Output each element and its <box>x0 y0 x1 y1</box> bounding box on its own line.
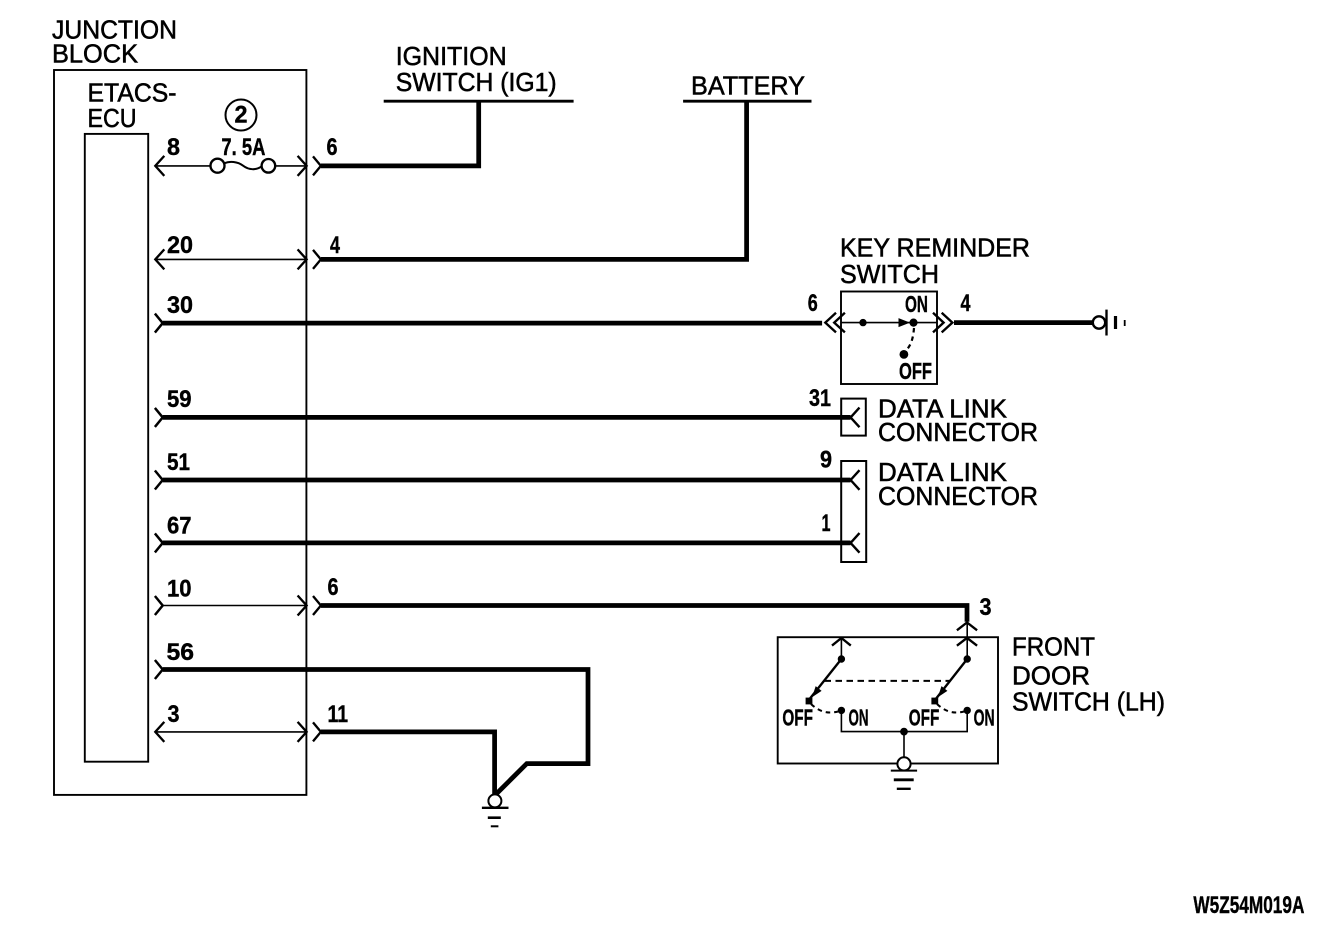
krs dashed arm to OFF <box>907 328 915 350</box>
krs OFF dot <box>900 351 908 359</box>
fds mechanical link dashed <box>825 680 950 682</box>
fds right stem <box>966 622 968 659</box>
fds right ON dot <box>964 707 970 713</box>
body ground bars <box>482 807 509 809</box>
data link connector 1 box <box>841 399 866 436</box>
fds common junction dot <box>901 728 908 735</box>
svg-text:OFF: OFF <box>909 705 940 731</box>
svg-text:3: 3 <box>980 594 992 621</box>
fds left arm <box>808 659 841 701</box>
key reminder sw terminal 6 arrows <box>825 313 845 333</box>
dlc1 terminal 31 <box>851 408 860 428</box>
svg-text:FRONT: FRONT <box>1012 632 1095 662</box>
wire pin4 to battery thick <box>321 101 747 259</box>
svg-text:4: 4 <box>330 232 340 259</box>
dlc2 terminal 1 <box>851 533 860 553</box>
wire pin51 to data link connector thick <box>163 478 851 483</box>
svg-text:SWITCH (IG1): SWITCH (IG1) <box>396 67 557 97</box>
pin 10 arrow <box>155 596 163 615</box>
svg-text:1: 1 <box>822 510 831 537</box>
fds left dashed arc <box>811 704 838 713</box>
pin 56 arrow <box>155 660 163 679</box>
wire pin3 thin <box>155 731 306 733</box>
svg-text:ECU: ECU <box>88 103 137 133</box>
wire pin20 thin <box>155 258 306 260</box>
pin 67 arrow <box>155 533 163 552</box>
ignition switch symbol underline <box>384 100 574 103</box>
junction border arrow pin6b <box>298 596 321 616</box>
wire pin30 to key reminder switch thick <box>163 321 822 326</box>
svg-text:30: 30 <box>167 292 193 319</box>
svg-text:6: 6 <box>808 290 818 317</box>
wire pin10 thin <box>163 605 307 607</box>
fds right pivot dot <box>964 656 970 662</box>
key reminder switch internal wire <box>841 322 937 324</box>
svg-text:CONNECTOR: CONNECTOR <box>878 417 1038 447</box>
pin 59 arrow <box>155 408 163 427</box>
svg-text:10: 10 <box>167 576 192 603</box>
pin 30 arrow <box>155 314 163 333</box>
connector stub at page edge <box>1093 316 1105 328</box>
svg-text:11: 11 <box>328 701 349 728</box>
junction border arrow pin6 <box>298 156 321 176</box>
svg-text:OFF: OFF <box>899 358 932 384</box>
svg-text:51: 51 <box>167 449 190 476</box>
ETACS-ECU box <box>85 134 148 762</box>
pin 3 arrow <box>155 722 164 742</box>
krs moving contact arrow <box>899 318 911 327</box>
fds left ON dot <box>838 707 844 713</box>
junction border arrow pin11 <box>298 722 321 742</box>
svg-text:BLOCK: BLOCK <box>52 39 139 69</box>
fuse number circle 2 <box>226 100 257 131</box>
svg-text:3: 3 <box>168 701 180 728</box>
data link connector 2 box <box>841 461 866 562</box>
junction border arrow pin4 <box>298 249 321 269</box>
key reminder switch box <box>841 292 937 385</box>
svg-text:BATTERY: BATTERY <box>691 71 805 101</box>
fds terminal 3 arrows <box>957 623 977 646</box>
svg-text:59: 59 <box>167 386 192 413</box>
krs pivot dot <box>860 319 866 325</box>
svg-text:7. 5A: 7. 5A <box>221 134 265 161</box>
fds left terminal arrow <box>832 638 851 646</box>
svg-text:OFF: OFF <box>782 705 813 731</box>
svg-text:2: 2 <box>235 102 248 129</box>
front door switch box <box>778 637 998 763</box>
svg-text:6: 6 <box>328 574 339 601</box>
svg-text:67: 67 <box>167 513 192 540</box>
fds right OFF dot <box>931 698 938 705</box>
fds left arm arrowhead <box>812 686 822 697</box>
svg-text:6: 6 <box>327 134 338 161</box>
fds left pivot dot <box>838 656 844 662</box>
fds ground bars <box>891 770 917 772</box>
svg-text:31: 31 <box>809 385 831 412</box>
wire pin67 to data link connector thick <box>163 541 851 546</box>
svg-text:ON: ON <box>849 705 869 731</box>
fds left stem <box>840 639 842 659</box>
wire pin8 thin fuse row <box>155 165 306 167</box>
pin 8 arrow <box>155 156 164 176</box>
junction block outline <box>54 70 306 795</box>
svg-text:ON: ON <box>974 705 995 731</box>
svg-text:ON: ON <box>905 291 928 317</box>
fds ground stem <box>903 732 905 758</box>
svg-text:KEY REMINDER: KEY REMINDER <box>840 233 1030 263</box>
body ground circle <box>488 794 501 807</box>
wire pin6 to ignition switch thick <box>321 101 479 166</box>
krs terminal 4 arrows <box>933 313 952 333</box>
dlc2 terminal 9 <box>851 470 860 490</box>
svg-text:SWITCH: SWITCH <box>840 259 939 289</box>
fds left OFF dot <box>806 698 813 705</box>
wire pin6b to front door switch thick <box>321 606 967 622</box>
fds ground circle <box>897 757 910 770</box>
svg-text:W5Z54M019A: W5Z54M019A <box>1193 892 1304 919</box>
fds ON wires to common <box>841 710 967 731</box>
fds right dashed arc <box>937 704 964 713</box>
fds right arm arrowhead <box>938 686 948 697</box>
fds right arm <box>935 659 968 701</box>
wire pin59 to data link connector thick <box>163 415 851 420</box>
wire pin11 to ground thick <box>321 732 495 795</box>
krs ON contact dot <box>910 319 917 326</box>
pin 51 arrow <box>155 471 163 490</box>
wire pin56 to ground thick <box>163 670 588 795</box>
svg-text:8: 8 <box>167 134 180 161</box>
fuse F2 7.5A <box>211 159 225 173</box>
svg-text:9: 9 <box>820 447 832 474</box>
pin 20 arrow <box>155 249 164 269</box>
svg-text:56: 56 <box>167 639 195 666</box>
battery symbol underline <box>683 100 811 103</box>
svg-text:SWITCH (LH): SWITCH (LH) <box>1012 687 1165 717</box>
svg-text:20: 20 <box>167 232 193 259</box>
svg-text:4: 4 <box>961 290 971 317</box>
svg-text:CONNECTOR: CONNECTOR <box>878 481 1038 511</box>
wire krs pin4 thick <box>954 320 1093 325</box>
